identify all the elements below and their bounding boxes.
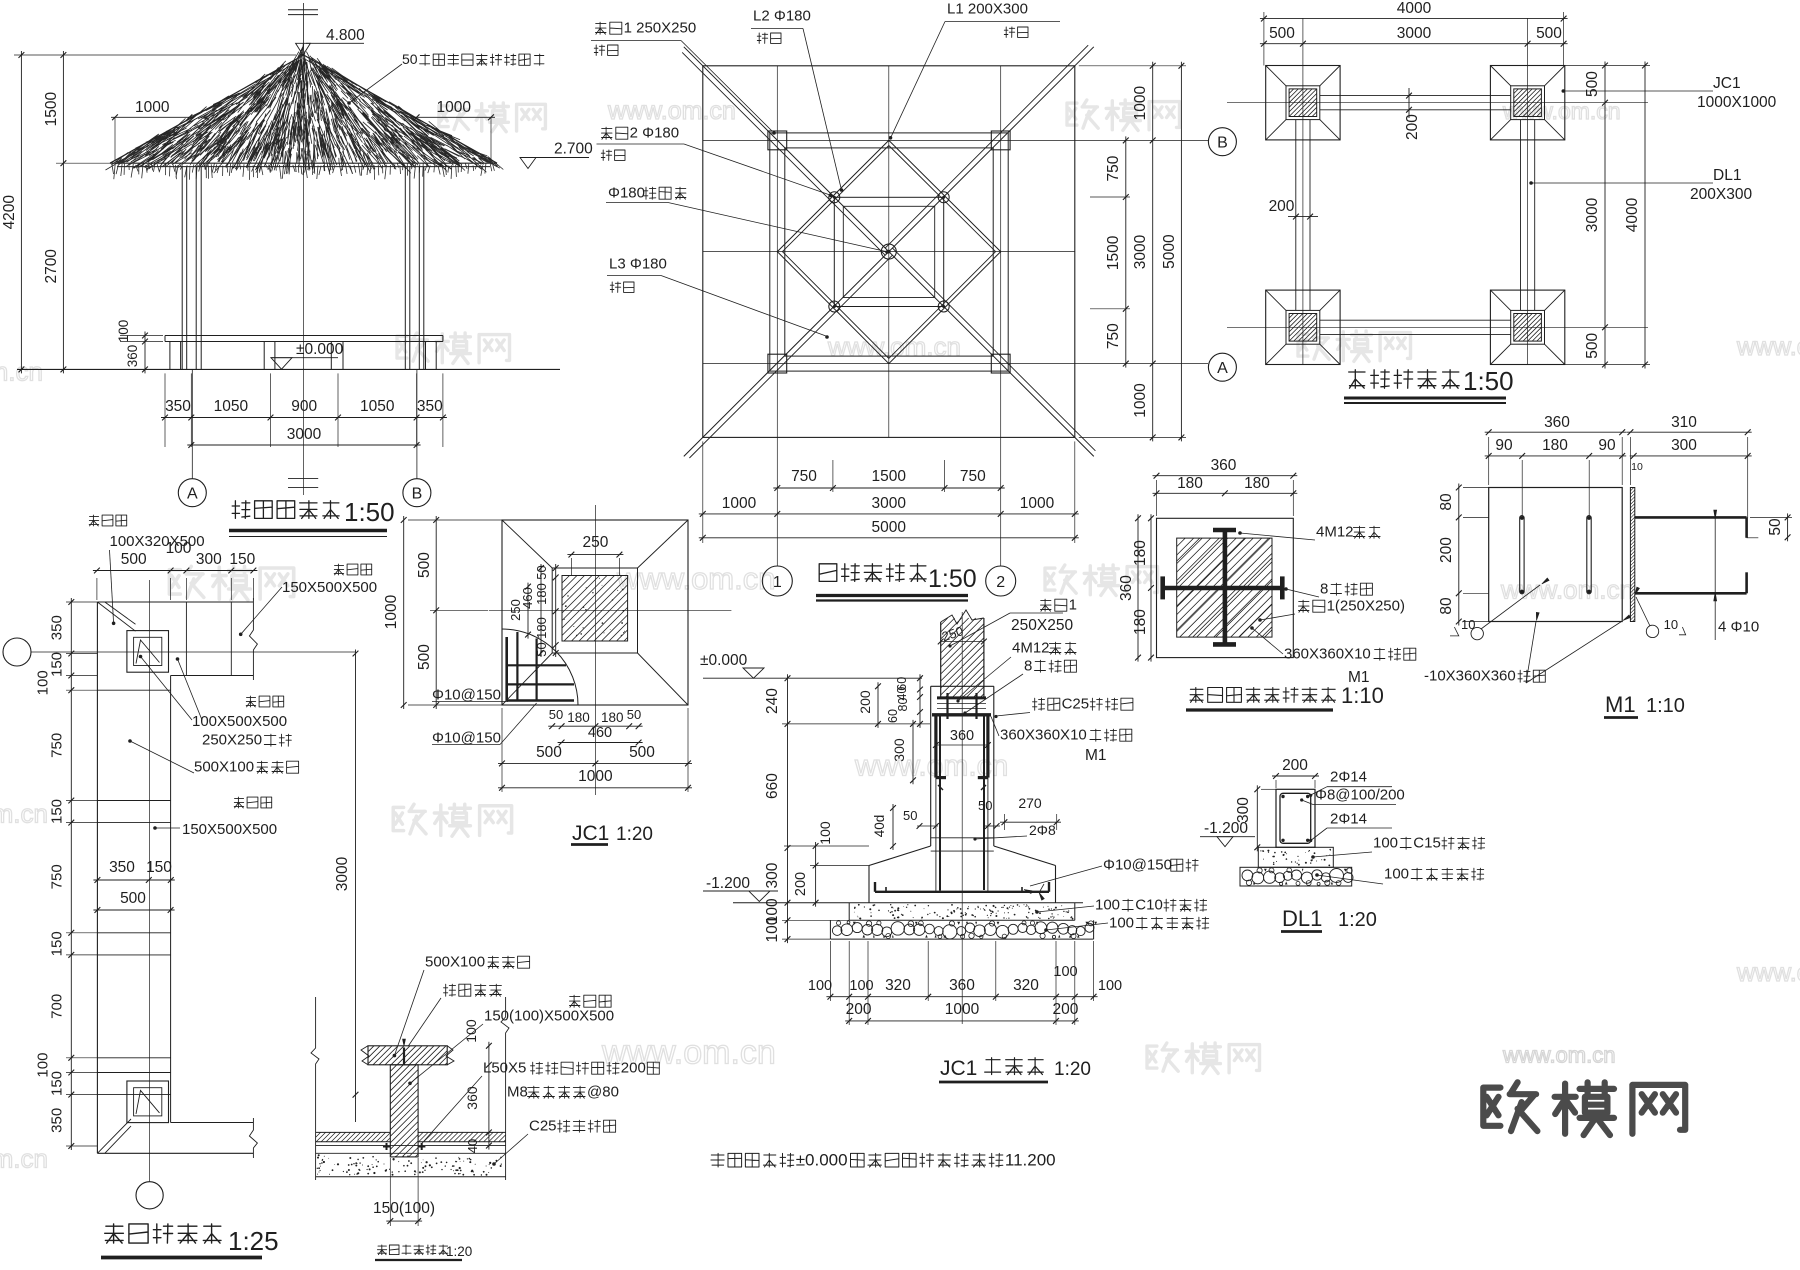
title bench section detail 1:20 xyxy=(377,1245,447,1255)
svg-text:1000: 1000 xyxy=(437,99,472,116)
dim 360 inside pedestal xyxy=(936,744,988,746)
svg-text:500: 500 xyxy=(120,890,146,907)
foundation footings (4x) xyxy=(1266,66,1340,140)
intermediate post circles xyxy=(829,192,840,203)
M1 weld symbols (10) xyxy=(1471,627,1483,639)
svg-text:200: 200 xyxy=(857,690,873,714)
axis circle B (roof plan) xyxy=(1208,128,1236,156)
JC1 quarter-circle rebar cut xyxy=(502,629,578,705)
roof plan bottom dims 1000/3000/1000 xyxy=(699,513,1079,515)
svg-text:L2 Φ180: L2 Φ180 xyxy=(753,8,811,25)
svg-text:700: 700 xyxy=(49,994,66,1019)
svg-text:750: 750 xyxy=(49,733,66,758)
svg-text:180: 180 xyxy=(1177,475,1203,492)
bench left dim stack xyxy=(70,598,72,1150)
JC1 section bottom dims row2 xyxy=(845,1020,1079,1022)
bench section dims 100/360/40 xyxy=(488,1042,490,1150)
svg-text:180: 180 xyxy=(1132,609,1149,635)
svg-text:350: 350 xyxy=(417,398,443,415)
svg-text:3000: 3000 xyxy=(1397,25,1432,42)
axis break below elevation xyxy=(288,478,318,480)
svg-text:50: 50 xyxy=(1767,518,1784,536)
svg-text:750: 750 xyxy=(49,864,66,889)
light watermark tiles xyxy=(439,103,546,132)
svg-text:310: 310 xyxy=(1671,414,1697,431)
roof plan axis lines vertical xyxy=(776,66,778,566)
svg-text:250X250: 250X250 xyxy=(1011,617,1073,634)
svg-text:60: 60 xyxy=(886,709,900,723)
svg-text:50: 50 xyxy=(903,808,917,823)
svg-text:8: 8 xyxy=(1320,581,1328,598)
svg-text:1000: 1000 xyxy=(578,768,613,785)
svg-text:1: 1 xyxy=(1069,597,1077,614)
title: foundation plan 1:50 xyxy=(1349,370,1459,388)
svg-text:200: 200 xyxy=(793,872,809,896)
corner miters xyxy=(97,602,135,631)
svg-text:500: 500 xyxy=(629,744,655,761)
svg-text:±0.000: ±0.000 xyxy=(296,341,344,358)
svg-text:200X300: 200X300 xyxy=(1690,186,1752,203)
svg-text:360: 360 xyxy=(125,345,140,368)
bench legs xyxy=(169,342,171,370)
svg-text:1000: 1000 xyxy=(1132,383,1149,418)
bench 3000 dim xyxy=(355,650,357,1099)
svg-text:±0.000: ±0.000 xyxy=(796,1150,848,1169)
bottom extension lines xyxy=(702,441,704,543)
elevation center axis top xyxy=(303,3,305,55)
JC1 plate square xyxy=(552,568,637,653)
DL1 beam section xyxy=(1276,789,1315,847)
svg-text:www.om.cn: www.om.cn xyxy=(1736,959,1800,987)
svg-text:M1: M1 xyxy=(1085,747,1107,764)
axis circles 1 and 2 below roof plan xyxy=(762,566,792,596)
svg-text:40: 40 xyxy=(465,1139,480,1153)
svg-text:11.200: 11.200 xyxy=(1005,1150,1056,1169)
svg-text:1000: 1000 xyxy=(945,1001,980,1018)
small dims 100/360 left of bench xyxy=(144,332,146,374)
DL1 dim 200 xyxy=(1272,775,1319,777)
floor slab strips (hatched) xyxy=(316,1131,391,1133)
svg-text:Φ180: Φ180 xyxy=(608,185,645,202)
svg-text:3000: 3000 xyxy=(334,856,351,891)
JC1 plan left dims 1000 / 500+500 xyxy=(403,516,405,709)
svg-text:B: B xyxy=(412,486,423,503)
svg-text:100: 100 xyxy=(849,978,873,994)
svg-text:1050: 1050 xyxy=(360,398,395,415)
svg-text:180: 180 xyxy=(1132,540,1149,566)
svg-text:10: 10 xyxy=(1631,461,1643,473)
roof thatch strands xyxy=(106,43,504,175)
column base plan steel cross (thick) xyxy=(1163,586,1283,591)
svg-text:500: 500 xyxy=(1536,25,1562,42)
column base plan outer plate square xyxy=(1157,518,1294,657)
svg-text:100X320X500: 100X320X500 xyxy=(110,533,205,550)
svg-text:1:50: 1:50 xyxy=(344,497,395,527)
svg-text:1000: 1000 xyxy=(135,99,170,116)
svg-text:1:50: 1:50 xyxy=(928,565,977,593)
svg-text:50: 50 xyxy=(534,642,549,656)
steel plates (thick) xyxy=(937,696,986,699)
column base plan hatched wood column xyxy=(1177,538,1272,637)
axis break marks at top xyxy=(288,9,318,11)
svg-text:360: 360 xyxy=(1544,414,1570,431)
svg-text:500: 500 xyxy=(1584,332,1601,358)
svg-text:10: 10 xyxy=(1664,617,1678,632)
svg-text:L50X5: L50X5 xyxy=(483,1060,526,1077)
svg-text:320: 320 xyxy=(885,977,911,994)
svg-text:1000: 1000 xyxy=(1132,85,1149,120)
svg-text:L1 200X300: L1 200X300 xyxy=(947,1,1028,18)
M1 top dims 310/300 xyxy=(1626,431,1751,433)
svg-text:250: 250 xyxy=(582,534,608,551)
title: bench plan 1:25 xyxy=(105,1224,221,1243)
svg-text:3000: 3000 xyxy=(1584,197,1601,232)
svg-text:4 Φ10: 4 Φ10 xyxy=(1718,619,1759,636)
svg-text:750: 750 xyxy=(791,468,817,485)
svg-text:500X100: 500X100 xyxy=(425,954,485,971)
svg-text:4000: 4000 xyxy=(1624,197,1641,232)
svg-text:2Φ14: 2Φ14 xyxy=(1330,769,1367,786)
roof plan axis lines horizontal (to circles B/A) xyxy=(703,139,1208,141)
svg-text:150X500X500: 150X500X500 xyxy=(182,821,277,838)
hip rafters (double lines corner to center) with overhang stubs xyxy=(684,47,703,66)
svg-text:350: 350 xyxy=(49,1108,66,1133)
svg-text:1:50: 1:50 xyxy=(1463,366,1514,396)
svg-text:180: 180 xyxy=(534,583,549,605)
svg-text:500X100: 500X100 xyxy=(194,759,254,776)
svg-text:4.800: 4.800 xyxy=(326,27,365,44)
dim 40d xyxy=(892,804,894,850)
svg-text:360X360X10: 360X360X10 xyxy=(1284,646,1371,663)
svg-text:100: 100 xyxy=(817,821,833,845)
JC1 plan left small dims 50/180/180/50 + 460 xyxy=(555,564,557,657)
svg-text:320: 320 xyxy=(1013,977,1039,994)
foundation top dims 4000 xyxy=(1260,18,1568,20)
axis circle A xyxy=(191,369,193,478)
column base plan top dims 360 / 180+180 xyxy=(1153,475,1298,477)
bench leg (hatched) xyxy=(390,1065,418,1157)
svg-text:460: 460 xyxy=(588,725,612,741)
dim 270 / 2phi8 xyxy=(1000,821,1061,823)
svg-text:150X500X500: 150X500X500 xyxy=(282,579,377,596)
svg-text:-1.200: -1.200 xyxy=(706,875,750,892)
svg-text:100: 100 xyxy=(116,320,131,343)
svg-text:50: 50 xyxy=(978,798,992,813)
center lamp post circle xyxy=(881,244,896,259)
svg-text:40d: 40d xyxy=(872,815,887,838)
svg-text:www.om.cn: www.om.cn xyxy=(607,97,736,125)
svg-text:1(250X250): 1(250X250) xyxy=(1327,598,1405,615)
M1 dim 50 (hook) xyxy=(1747,537,1759,539)
pedestal rebar verticals (thick) xyxy=(939,716,941,890)
svg-text:300: 300 xyxy=(764,862,781,888)
svg-text:360: 360 xyxy=(1118,575,1135,601)
svg-text:2: 2 xyxy=(996,574,1005,591)
foundation right dim 4000 xyxy=(1644,62,1646,369)
concrete slab (dotted) xyxy=(316,1152,506,1154)
axis circle B xyxy=(416,369,418,478)
svg-text:500: 500 xyxy=(536,744,562,761)
svg-text:JC1: JC1 xyxy=(940,1057,977,1080)
svg-text:1:10: 1:10 xyxy=(1646,695,1685,717)
roof slope outlines xyxy=(110,55,304,163)
side extension lines with breaks xyxy=(311,997,319,1180)
svg-text:M1: M1 xyxy=(1605,692,1636,717)
steel nail (dark) xyxy=(403,1048,405,1065)
svg-text:DL1: DL1 xyxy=(1713,167,1741,184)
svg-text:150: 150 xyxy=(49,1071,66,1096)
center axis through building xyxy=(303,55,305,447)
svg-text:1050: 1050 xyxy=(214,398,249,415)
svg-text:150: 150 xyxy=(49,931,66,956)
JC1 hatched column square xyxy=(562,576,628,642)
columns left xyxy=(181,167,183,370)
roof plan centerlines xyxy=(888,66,890,438)
svg-text:DL1: DL1 xyxy=(1282,906,1322,931)
bench section dim 150(100) xyxy=(386,1220,422,1222)
svg-text:M8: M8 xyxy=(507,1084,528,1101)
inner squares xyxy=(834,197,943,306)
roof plan right dim 5000 xyxy=(1180,62,1182,442)
footing bottom rebar mesh (thick with hooks) xyxy=(875,891,1049,893)
svg-text:300: 300 xyxy=(891,738,907,762)
bench leg lines xyxy=(97,800,170,802)
svg-text:B: B xyxy=(1217,135,1228,152)
M1 anchor shoe (thick U) xyxy=(934,715,937,778)
svg-text:2.700: 2.700 xyxy=(554,141,593,158)
column pads at ring corners xyxy=(768,131,787,150)
svg-text:500: 500 xyxy=(416,552,433,578)
svg-text:350: 350 xyxy=(165,398,191,415)
svg-text:1:10: 1:10 xyxy=(1341,683,1384,708)
M1 side plate (hatched strip) xyxy=(1630,488,1634,622)
svg-text:3000: 3000 xyxy=(287,426,322,443)
foundation right dims 500/3000/500 xyxy=(1604,62,1606,369)
svg-text:5000: 5000 xyxy=(871,519,906,536)
svg-text:100: 100 xyxy=(808,978,832,994)
svg-text:Φ8@100/200: Φ8@100/200 xyxy=(1315,787,1405,804)
svg-text:150(100)X500X500: 150(100)X500X500 xyxy=(484,1008,614,1025)
JC1 plan corner diagonals xyxy=(502,520,552,568)
svg-text:50: 50 xyxy=(627,707,641,722)
JC1 plan outer square xyxy=(502,520,688,705)
svg-text:C15: C15 xyxy=(1413,835,1441,852)
svg-text:250: 250 xyxy=(508,599,523,621)
svg-text:240: 240 xyxy=(764,688,781,714)
bench plan outline xyxy=(97,601,253,603)
M1 top dims 360 and 90/180/90 xyxy=(1485,431,1627,433)
title: column base fixing plan 1:10 xyxy=(1190,688,1335,703)
svg-text:350: 350 xyxy=(49,615,66,640)
svg-text:1500: 1500 xyxy=(1105,235,1122,270)
svg-text:200: 200 xyxy=(1269,198,1295,215)
JC1 plan top dim 250 xyxy=(567,554,623,556)
svg-text:2Φ14: 2Φ14 xyxy=(1330,811,1367,828)
svg-text:3000: 3000 xyxy=(871,495,906,512)
svg-text:2 Φ180: 2 Φ180 xyxy=(630,125,680,142)
svg-text:4M12: 4M12 xyxy=(1012,640,1050,657)
labels 100X500X500 / 250X250 xyxy=(246,696,284,707)
ground line xyxy=(17,368,560,370)
bench top dims 500/100/300/150 xyxy=(93,570,258,572)
stirrups in pedestal xyxy=(931,837,994,839)
dim 250 on column xyxy=(941,641,984,643)
JC1 section left dim stack 240/660/300/100/100 xyxy=(787,674,789,943)
right dim extension lines xyxy=(1079,65,1186,67)
svg-text:180: 180 xyxy=(1244,475,1270,492)
svg-text:100: 100 xyxy=(1109,915,1134,932)
label JC1 1000X1000 xyxy=(1562,89,1566,93)
svg-text:750: 750 xyxy=(1105,155,1122,181)
svg-text:270: 270 xyxy=(1018,795,1042,811)
svg-text:300: 300 xyxy=(1671,437,1697,454)
dims 1500/2700 xyxy=(62,51,64,373)
svg-text:www.om.cn: www.om.cn xyxy=(0,1144,48,1174)
column opening 250x250 bottom xyxy=(127,1081,169,1123)
svg-text:3000: 3000 xyxy=(1132,234,1149,269)
bottom dims 350/1050/900/1050/350 xyxy=(161,417,447,419)
svg-text:200: 200 xyxy=(1404,114,1421,140)
svg-text:2Φ8: 2Φ8 xyxy=(1029,822,1056,838)
svg-text:50: 50 xyxy=(549,707,563,722)
svg-text:100: 100 xyxy=(1098,978,1122,994)
svg-text:www.om.cn: www.om.cn xyxy=(1502,1043,1615,1068)
foundation top dims 500/3000/500 xyxy=(1260,43,1568,45)
DL1 dim 300 xyxy=(1256,785,1258,851)
svg-text:L3 Φ180: L3 Φ180 xyxy=(609,256,667,273)
svg-text:2700: 2700 xyxy=(43,249,60,284)
svg-text:1000: 1000 xyxy=(383,594,400,629)
eave lines xyxy=(110,162,497,164)
svg-text:300: 300 xyxy=(196,551,222,568)
svg-text:A: A xyxy=(187,486,198,503)
M1 anchor bars with hooks (thick) xyxy=(1635,516,1747,519)
svg-text:100X500X500: 100X500X500 xyxy=(192,713,287,730)
break marks arm ends xyxy=(249,598,257,680)
JC1 section center axis xyxy=(961,612,963,1024)
svg-text:1:20: 1:20 xyxy=(1338,909,1377,931)
foundation axis lines xyxy=(1227,102,1648,104)
svg-text:150: 150 xyxy=(229,551,255,568)
svg-text:1: 1 xyxy=(773,574,782,591)
M1 4phi10 label with arrows xyxy=(1714,517,1716,640)
svg-text:4200: 4200 xyxy=(1,195,18,230)
bench axes + circles xyxy=(149,580,151,1182)
M1 left dims 80/200/80 xyxy=(1458,484,1460,626)
svg-text:-1.200: -1.200 xyxy=(1204,820,1248,837)
svg-text:180: 180 xyxy=(1542,437,1568,454)
svg-text:1:20: 1:20 xyxy=(446,1244,472,1259)
svg-text:180: 180 xyxy=(567,710,590,725)
svg-text:200: 200 xyxy=(621,1060,646,1077)
svg-text:C25: C25 xyxy=(529,1118,557,1135)
pedestal (C25 encasement) xyxy=(931,685,994,687)
roof plan outer eave square xyxy=(703,66,1075,438)
column base plan left dims xyxy=(1137,514,1139,661)
dim 200 beam width (left) xyxy=(1288,216,1318,218)
svg-text:www.om.cn: www.om.cn xyxy=(616,561,775,596)
svg-text:150: 150 xyxy=(49,799,66,824)
roof plan bottom dims 750/1500/750 xyxy=(773,487,1004,489)
svg-text:200: 200 xyxy=(1282,757,1308,774)
svg-text:100: 100 xyxy=(1095,897,1120,914)
JC1 section bottom dims row1 xyxy=(826,996,1097,998)
M1 plate square xyxy=(1489,488,1623,622)
inner small dim chain 60/40/80/60 and 200 xyxy=(919,674,921,728)
svg-text:1:25: 1:25 xyxy=(228,1226,279,1256)
anchor angles at leg bottom xyxy=(383,1146,390,1148)
footing outline xyxy=(869,846,931,866)
gravel bed xyxy=(829,920,831,939)
svg-text:100: 100 xyxy=(1373,835,1398,852)
svg-text:A: A xyxy=(1217,360,1228,377)
svg-text:www.om.cn: www.om.cn xyxy=(827,332,961,362)
svg-text:www.om.cn: www.om.cn xyxy=(1502,98,1621,124)
svg-text:100: 100 xyxy=(463,1019,479,1043)
svg-text:180: 180 xyxy=(601,710,624,725)
roof plan right dims 1000/3000/1000 xyxy=(1152,62,1154,442)
top arm internal verticals xyxy=(185,602,187,676)
diamond purlin (double lines) xyxy=(777,140,1000,363)
JC1 plan dim 1000 xyxy=(498,787,692,789)
JC1 plan dim 460 xyxy=(558,742,643,744)
svg-text:660: 660 xyxy=(764,773,781,799)
dim 300 (shoe) xyxy=(912,720,914,784)
bench slab xyxy=(165,335,443,337)
dim 200 beam width (top) xyxy=(1408,88,1410,118)
thatch fringe below eave xyxy=(112,163,494,180)
svg-text:1 250X250: 1 250X250 xyxy=(624,20,697,37)
svg-text:1:20: 1:20 xyxy=(1054,1059,1091,1080)
DL1 gravel layer xyxy=(1240,867,1352,886)
svg-text:150(100): 150(100) xyxy=(373,1200,435,1217)
svg-text:350: 350 xyxy=(109,859,135,876)
extension lines xyxy=(14,54,296,56)
svg-text:JC1: JC1 xyxy=(572,822,609,845)
svg-text:200: 200 xyxy=(1438,537,1455,563)
roof plan bottom dim 5000 xyxy=(699,537,1079,539)
svg-text:8: 8 xyxy=(1024,658,1032,675)
svg-text:JC1: JC1 xyxy=(1713,75,1741,92)
svg-text:1000X1000: 1000X1000 xyxy=(1697,94,1777,111)
svg-text:360: 360 xyxy=(950,728,974,744)
svg-text:500: 500 xyxy=(121,551,147,568)
svg-text:www.om.cn: www.om.cn xyxy=(1736,333,1800,361)
ground beams DL1 between footings xyxy=(1320,95,1511,97)
label 100X320X500 xyxy=(89,515,127,526)
svg-text:750: 750 xyxy=(960,468,986,485)
svg-text:100: 100 xyxy=(764,916,781,942)
svg-text:360: 360 xyxy=(464,1086,480,1110)
big watermark logo xyxy=(1483,1082,1685,1135)
svg-text:750: 750 xyxy=(1105,323,1122,349)
dim 1000 right overhang xyxy=(413,116,495,118)
svg-text:90: 90 xyxy=(1495,437,1513,454)
svg-text:80: 80 xyxy=(1438,597,1455,615)
bench internal dims 350/150 and 500 xyxy=(93,879,174,881)
label mid leg 150X500X500 xyxy=(234,797,272,808)
JC1 plan dims 500/500 xyxy=(498,762,692,764)
svg-text:500: 500 xyxy=(416,644,433,670)
svg-text:1500: 1500 xyxy=(43,91,60,126)
svg-text:±0.000: ±0.000 xyxy=(700,652,748,669)
label DL1 200X300 xyxy=(1529,181,1533,185)
anchor bolts between plates xyxy=(946,693,948,719)
svg-text:150: 150 xyxy=(146,859,172,876)
svg-text:1500: 1500 xyxy=(871,468,906,485)
JC1 plan centerlines xyxy=(594,505,596,795)
column opening 250x250 top xyxy=(127,631,169,673)
